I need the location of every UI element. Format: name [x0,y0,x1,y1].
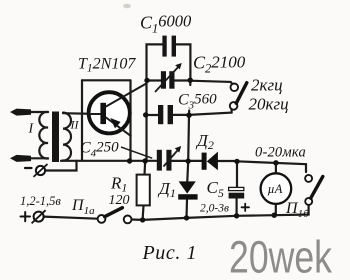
junction node main row C5 [234,159,239,164]
svg-text:µА: µА [268,182,283,196]
label winding II [70,118,80,132]
wire: headphone lead top [29,111,48,113]
junction node bottom rail D1 [184,215,189,220]
junction node bottom rail R1 [140,217,145,222]
meter uA body [261,173,292,204]
svg-text:C16000: C16000 [140,12,192,36]
wire: base lead inside circle [88,113,101,115]
junction node main row R1 [143,158,148,163]
svg-text:C3560: C3560 [178,92,217,112]
switch P2 contact 2kHz [231,84,239,92]
capacitor C2 trimmer arrow [155,63,182,92]
svg-text:I: I [28,122,35,137]
label P1b [285,200,309,220]
wire: main row left [61,159,157,162]
transformer Tr winding I [39,112,48,159]
svg-text:R1: R1 [110,174,127,195]
label C1 6000 [140,12,192,36]
junction node row2 left [144,78,149,83]
svg-text:C22100: C22100 [193,53,246,76]
junction node main row emitter [127,158,132,163]
label 2kHz [251,76,283,95]
wire: row2 to switch contact [190,81,232,85]
svg-text:II: II [70,118,80,132]
transistor T1 emitter arrowhead [110,118,120,128]
transistor T1 base bar [100,103,106,124]
label plus sign [21,212,31,221]
wire: box top edge [82,79,131,81]
switch P1b bottom contact [305,198,312,205]
junction node bottom rail C5 [234,213,239,218]
junction node bottom rail meter [272,213,277,218]
capacitor C1 plates [162,36,176,57]
switch P1a lever [105,208,123,217]
label winding I [28,122,35,137]
junction node row3 right [186,113,191,118]
label C5 value [200,203,229,215]
diode D2 (horizontal, pointing left) [202,152,218,171]
wire: C5 bottom lead [236,199,238,216]
label minus sign [25,167,32,169]
wire: P1a open contact to rail [132,218,143,221]
capacitor C2 plates (trimmer) [161,71,175,89]
svg-text:Д1: Д1 [157,179,176,200]
wire: row3 C3 [146,114,189,116]
wire: minus terminal branch [45,161,76,171]
wire: C1 loop right side [176,44,191,80]
transformer Tr winding II [63,113,71,161]
wire: box right edge [129,80,131,161]
label 0-20uA [255,145,306,161]
wire: right capacitor rail lower [188,111,189,162]
svg-text:C5: C5 [207,178,224,200]
capacitor C3 plates [158,105,173,124]
svg-text:20wek: 20wek [229,232,332,280]
headphone arrow bottom [10,155,31,162]
switch P2 lever [236,83,247,104]
wire: R1 top lead [143,161,146,175]
meter uA label [268,182,283,196]
transformer Tr core [52,112,59,163]
capacitor C5 top plate [229,187,244,190]
switch P1b lever [311,177,323,199]
label D1 [157,179,176,200]
scan speck [123,4,131,8]
wire: D1 bottom lead [185,200,188,218]
wire: right capacitor rail upper [189,80,191,85]
svg-text:20кгц: 20кгц [249,95,289,114]
capacitor C4 plates (trimmer) [157,150,172,171]
transistor T1 circle [89,92,130,133]
diode D1 (vertical, pointing down) [178,181,197,199]
junction node row3 left [143,112,148,117]
label 20kHz [249,95,289,114]
label T1 2N107 [78,56,136,75]
label C4 250 [80,140,119,160]
wire: R1 bottom lead [142,205,145,219]
label C2 2100 [193,53,246,76]
label battery voltage [20,194,61,208]
wire: main row right [172,161,307,172]
wire: row3 to switch contact [189,110,232,115]
wire: bottom rail [143,205,309,220]
label P1a [71,197,95,217]
battery plus terminal [32,210,46,223]
junction node main row meter [273,160,278,165]
switch P1b top contact [305,175,312,182]
switch P2 contact 20kHz [230,102,238,110]
wire: meter top lead [275,163,277,174]
svg-text:Рис. 1: Рис. 1 [142,242,197,264]
wire: base lead from winding II [63,112,101,115]
svg-text:2кгц: 2кгц [251,76,283,95]
label R1 value 120 [109,193,130,208]
wire: box left edge [81,80,83,160]
wire: C5 top lead [236,161,238,187]
capacitor C4 trimmer arrow [164,146,182,167]
wire: meter bottom lead [275,204,277,215]
svg-text:120: 120 [109,193,130,208]
label D2 [195,131,214,152]
svg-text:T12N107: T12N107 [78,56,136,75]
headphone arrow top [10,109,31,116]
svg-text:П1а: П1а [71,197,95,217]
label C5 plus [242,204,250,211]
wire: emitter lead [106,118,131,136]
junction node main row D1 [186,158,191,163]
wire: collector lead [106,84,146,107]
svg-text:1,2-1,5в: 1,2-1,5в [20,194,61,208]
switch P1a open contact [124,216,132,224]
wire: left capacitor rail [147,44,163,160]
wire: headphone lead bottom [29,157,48,159]
resistor R1 body [137,175,150,206]
svg-text:C4250: C4250 [80,140,119,160]
junction node row2 right [188,78,193,83]
watermark 20wek [229,232,332,280]
svg-text:0-20мка: 0-20мка [255,145,306,161]
wire: battery plus to switch P1a [44,217,98,219]
label Ris 1 caption [142,242,197,264]
battery minus terminal [34,164,48,177]
switch P1a pivot contact [98,215,106,223]
label R1 [110,174,127,195]
capacitor C4 label leader line [121,147,152,158]
svg-text:2,0-3в: 2,0-3в [200,203,229,215]
label C3 560 [178,92,217,112]
wire: D1 top lead [186,161,189,181]
wire: row2 C2 [147,79,191,81]
svg-text:Д2: Д2 [195,131,214,152]
label C5 [207,178,224,200]
capacitor C5 bottom plate [229,193,245,199]
